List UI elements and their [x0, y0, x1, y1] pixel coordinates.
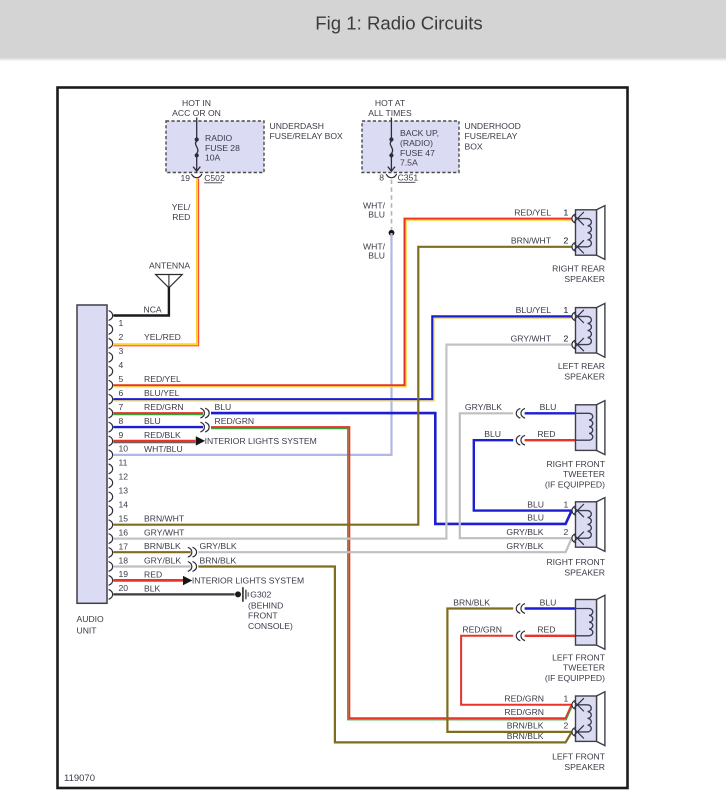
- svg-text:YEL/: YEL/: [172, 202, 191, 212]
- svg-text:FUSE 47: FUSE 47: [400, 148, 435, 158]
- junction splice dot: [389, 230, 395, 236]
- svg-text:BOX: BOX: [465, 142, 483, 152]
- svg-text:5: 5: [119, 374, 124, 384]
- svg-text:FUSE/RELAY BOX: FUSE/RELAY BOX: [270, 131, 343, 141]
- speaker cone RIGHT FRONT: [597, 498, 605, 552]
- wire RED pin 19: [113, 579, 183, 582]
- tweeter coil RIGHT FRONT: [576, 413, 593, 440]
- connector left front tweeter row 1: [516, 604, 520, 614]
- fuse F2 BACK UP RADIO FUSE 47: [390, 118, 392, 140]
- svg-text:GRY/BLK: GRY/BLK: [506, 527, 543, 537]
- wire RED right front tweeter row 2: [525, 439, 576, 441]
- speaker coil RIGHT REAR: [578, 219, 592, 247]
- svg-text:C502: C502: [204, 173, 225, 183]
- svg-text:10A: 10A: [205, 153, 221, 163]
- svg-text:7: 7: [119, 402, 124, 412]
- svg-text:HOT IN: HOT IN: [182, 98, 211, 108]
- speaker body LEFT FRONT: [576, 696, 597, 741]
- connector C351: [386, 174, 396, 178]
- speaker terminal arrows LEFT FRONT: [574, 698, 584, 708]
- wire BLU left front tweeter row 1: [525, 607, 576, 609]
- svg-text:BLU: BLU: [540, 597, 557, 607]
- svg-text:G302: G302: [250, 590, 271, 600]
- tweeter body RIGHT FRONT: [576, 405, 597, 451]
- svg-text:BLU: BLU: [144, 416, 161, 426]
- wire RED/BLK pin 9: [113, 440, 195, 442]
- connector pin 17: [188, 547, 192, 557]
- svg-text:7.5A: 7.5A: [400, 158, 418, 168]
- svg-text:3: 3: [119, 346, 124, 356]
- svg-text:INTERIOR LIGHTS SYSTEM: INTERIOR LIGHTS SYSTEM: [205, 436, 317, 446]
- svg-text:(BEHIND: (BEHIND: [248, 600, 283, 610]
- svg-text:BRN/BLK: BRN/BLK: [144, 541, 181, 551]
- svg-text:Fig 1: Radio Circuits: Fig 1: Radio Circuits: [315, 13, 482, 34]
- speaker terminal arrows RIGHT FRONT: [574, 504, 584, 514]
- svg-text:1: 1: [564, 305, 569, 315]
- svg-text:19: 19: [119, 569, 129, 579]
- svg-text:RED/YEL: RED/YEL: [514, 207, 551, 217]
- audio unit box: [77, 305, 107, 603]
- svg-text:1: 1: [119, 318, 124, 328]
- speaker coil RIGHT FRONT: [578, 511, 592, 539]
- speaker pin arcs LEFT REAR: [572, 312, 576, 321]
- svg-text:BLU: BLU: [527, 499, 544, 509]
- svg-text:1: 1: [564, 694, 569, 704]
- svg-text:ALL TIMES: ALL TIMES: [368, 108, 412, 118]
- wire BLU/YEL pin 6 to left rear speaker pin 1: [113, 316, 571, 399]
- svg-text:2: 2: [564, 721, 569, 731]
- wire RED/YEL pin 5 to right rear speaker pin 1: [113, 219, 571, 386]
- svg-text:SPEAKER: SPEAKER: [564, 372, 605, 382]
- svg-text:2: 2: [119, 332, 124, 342]
- svg-text:17: 17: [119, 541, 129, 551]
- wire BRN/BLK tweeter link left front: [447, 609, 571, 732]
- svg-text:8: 8: [119, 416, 124, 426]
- speaker coil LEFT FRONT: [578, 705, 591, 732]
- header bar: [0, 0, 726, 57]
- svg-text:RIGHT FRONT: RIGHT FRONT: [546, 557, 605, 567]
- svg-text:2: 2: [564, 527, 569, 537]
- svg-text:TWEETER: TWEETER: [563, 469, 605, 479]
- tweeter cone LEFT FRONT: [597, 595, 605, 649]
- audio unit pin arcs: [109, 311, 113, 321]
- svg-text:2: 2: [564, 236, 569, 246]
- fuse F1 RADIO FUSE 28: [196, 118, 198, 140]
- tweeter cone RIGHT FRONT: [597, 401, 605, 455]
- svg-text:UNIT: UNIT: [77, 626, 98, 636]
- svg-text:RED: RED: [537, 429, 555, 439]
- fuse box underdash: [166, 121, 264, 173]
- wire YEL/RED fuse C502 to pin 2: [113, 179, 197, 345]
- diagram frame: [58, 88, 628, 789]
- wire NCA antenna lead: [113, 287, 169, 316]
- svg-text:SPEAKER: SPEAKER: [564, 762, 605, 772]
- speaker body LEFT REAR: [576, 308, 597, 353]
- svg-text:RED: RED: [537, 625, 555, 635]
- wire BLK pin 20 to ground: [113, 593, 234, 595]
- wire BLU tweeter link right front: [474, 440, 572, 510]
- svg-text:SPEAKER: SPEAKER: [564, 567, 605, 577]
- svg-text:RADIO: RADIO: [205, 133, 233, 143]
- arrow interior lights system pin 9: [196, 436, 205, 445]
- svg-text:BRN/WHT: BRN/WHT: [511, 236, 552, 246]
- arrow interior lights system pin 19: [183, 576, 192, 585]
- connector C502: [192, 174, 202, 178]
- svg-text:LEFT FRONT: LEFT FRONT: [552, 652, 606, 662]
- svg-text:BACK UP,: BACK UP,: [400, 128, 439, 138]
- speaker terminal arrows RIGHT REAR: [574, 212, 584, 222]
- svg-text:RED/GRN: RED/GRN: [215, 416, 255, 426]
- wire BLU pin 8: [113, 426, 203, 428]
- svg-text:GRY/BLK: GRY/BLK: [144, 555, 181, 565]
- svg-text:RED/BLK: RED/BLK: [144, 430, 181, 440]
- svg-text:13: 13: [119, 486, 129, 496]
- svg-text:GRY/WHT: GRY/WHT: [511, 333, 552, 343]
- svg-text:UNDERDASH: UNDERDASH: [270, 121, 324, 131]
- connector right front tweeter row 1: [516, 408, 520, 418]
- svg-text:(IF EQUIPPED): (IF EQUIPPED): [545, 480, 605, 490]
- svg-text:2: 2: [564, 333, 569, 343]
- svg-text:RED/GRN: RED/GRN: [462, 625, 502, 635]
- svg-text:C351: C351: [398, 173, 419, 183]
- svg-text:RED/YEL: RED/YEL: [144, 374, 181, 384]
- svg-text:SPEAKER: SPEAKER: [564, 274, 605, 284]
- wire RED/GRN tweeter link left front: [461, 636, 572, 705]
- speaker body RIGHT FRONT: [576, 502, 597, 547]
- svg-text:FRONT: FRONT: [248, 611, 278, 621]
- wire RED/GRN pin 7: [113, 412, 203, 414]
- svg-text:GRY/WHT: GRY/WHT: [144, 528, 185, 538]
- tweeter body LEFT FRONT: [576, 600, 597, 646]
- fuse box underhood: [362, 121, 459, 173]
- svg-text:HOT AT: HOT AT: [375, 98, 406, 108]
- wire RED left front tweeter row 2: [525, 635, 576, 637]
- wire GRY/BLK pin 18: [113, 565, 190, 567]
- svg-text:CONSOLE): CONSOLE): [248, 621, 293, 631]
- connector pin 7: [200, 408, 204, 418]
- speaker cone LEFT FRONT: [597, 692, 605, 746]
- svg-text:LEFT REAR: LEFT REAR: [558, 361, 605, 371]
- connector right front tweeter row 2: [516, 435, 520, 445]
- speaker terminal arrows LEFT REAR: [574, 310, 584, 320]
- svg-text:8: 8: [379, 173, 384, 183]
- wire BLU right front tweeter row 1: [525, 412, 576, 414]
- svg-text:UNDERHOOD: UNDERHOOD: [465, 121, 521, 131]
- speaker cone RIGHT REAR: [597, 206, 605, 260]
- svg-text:ACC OR ON: ACC OR ON: [172, 108, 221, 118]
- svg-text:BRN/BLK: BRN/BLK: [200, 555, 237, 565]
- svg-text:15: 15: [119, 514, 129, 524]
- svg-text:6: 6: [119, 388, 124, 398]
- svg-text:RED/GRN: RED/GRN: [504, 694, 544, 704]
- wire WHT/BLU dashed from C351: [391, 180, 393, 230]
- svg-text:11: 11: [119, 458, 128, 468]
- svg-text:BLU: BLU: [527, 513, 544, 523]
- svg-text:16: 16: [119, 527, 129, 537]
- svg-text:9: 9: [119, 430, 124, 440]
- ground G302: [235, 591, 241, 597]
- svg-text:(IF EQUIPPED): (IF EQUIPPED): [545, 673, 605, 683]
- svg-text:AUDIO: AUDIO: [77, 614, 105, 624]
- svg-text:RED: RED: [144, 569, 162, 579]
- svg-text:FUSE/RELAY: FUSE/RELAY: [465, 131, 518, 141]
- svg-text:BLK: BLK: [144, 583, 161, 593]
- speaker pin arcs RIGHT REAR: [572, 214, 576, 223]
- svg-text:BLU: BLU: [540, 402, 557, 412]
- svg-text:TWEETER: TWEETER: [563, 663, 605, 673]
- speaker pin arcs RIGHT FRONT: [572, 506, 576, 515]
- svg-text:ANTENNA: ANTENNA: [149, 260, 190, 270]
- svg-text:(RADIO): (RADIO): [400, 138, 433, 148]
- svg-text:20: 20: [119, 583, 129, 593]
- svg-text:BRN/BLK: BRN/BLK: [507, 721, 544, 731]
- svg-text:YEL/RED: YEL/RED: [144, 332, 181, 342]
- speaker cone LEFT REAR: [597, 303, 605, 357]
- speaker pin arcs LEFT FRONT: [572, 700, 576, 709]
- wire GRY/WHT pin 16 to left rear speaker pin 2: [113, 345, 571, 539]
- svg-text:BLU/YEL: BLU/YEL: [144, 388, 180, 398]
- svg-text:12: 12: [119, 472, 129, 482]
- tweeter coil LEFT FRONT: [576, 609, 593, 636]
- svg-text:RED: RED: [172, 212, 190, 222]
- svg-text:RED/GRN: RED/GRN: [504, 707, 544, 717]
- svg-text:18: 18: [119, 555, 129, 565]
- wire BRN/BLK pin 17: [113, 551, 190, 553]
- svg-text:BLU: BLU: [484, 429, 501, 439]
- svg-text:BLU/YEL: BLU/YEL: [516, 305, 552, 315]
- svg-text:GRY/BLK: GRY/BLK: [200, 541, 237, 551]
- svg-text:BRN/WHT: BRN/WHT: [144, 514, 185, 524]
- svg-text:RED/GRN: RED/GRN: [144, 402, 184, 412]
- svg-text:GRY/BLK: GRY/BLK: [465, 402, 502, 412]
- speaker body RIGHT REAR: [576, 210, 597, 255]
- svg-text:RIGHT REAR: RIGHT REAR: [552, 263, 605, 273]
- svg-text:119070: 119070: [64, 773, 95, 784]
- svg-text:1: 1: [564, 207, 569, 217]
- svg-text:10: 10: [119, 444, 129, 454]
- wire BRN/WHT pin 15 to right rear speaker pin 2: [113, 247, 571, 525]
- svg-text:4: 4: [119, 360, 124, 370]
- svg-text:INTERIOR LIGHTS SYSTEM: INTERIOR LIGHTS SYSTEM: [192, 576, 304, 586]
- svg-text:BRN/BLK: BRN/BLK: [453, 597, 490, 607]
- svg-text:NCA: NCA: [144, 304, 162, 314]
- svg-text:WHT/BLU: WHT/BLU: [144, 444, 183, 454]
- connector pin 8: [200, 422, 204, 432]
- svg-text:1: 1: [564, 499, 569, 509]
- svg-text:RIGHT FRONT: RIGHT FRONT: [546, 459, 605, 469]
- svg-text:GRY/BLK: GRY/BLK: [506, 541, 543, 551]
- svg-text:BLU: BLU: [368, 250, 385, 260]
- wire GRY/BLK tweeter link right front: [460, 413, 572, 538]
- svg-text:19: 19: [180, 173, 190, 183]
- wire WHT/BLU to pin 10: [113, 233, 391, 455]
- svg-text:14: 14: [119, 500, 129, 510]
- connector left front tweeter row 2: [516, 631, 520, 641]
- svg-text:FUSE 28: FUSE 28: [205, 143, 240, 153]
- speaker coil LEFT REAR: [578, 316, 592, 344]
- connector pin 18: [188, 562, 192, 572]
- svg-text:BRN/BLK: BRN/BLK: [507, 731, 544, 741]
- svg-text:BLU: BLU: [215, 402, 232, 412]
- svg-text:LEFT FRONT: LEFT FRONT: [552, 752, 606, 762]
- svg-text:BLU: BLU: [368, 209, 385, 219]
